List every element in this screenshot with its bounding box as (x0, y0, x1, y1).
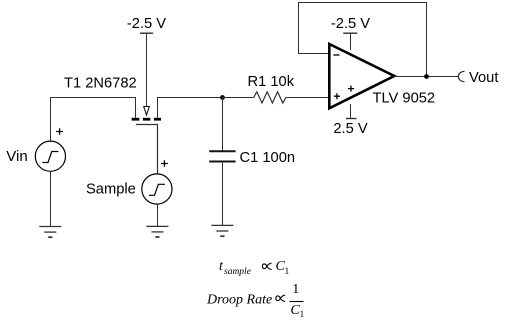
wire: C1 to ground (222, 162, 224, 226)
source Vin plus sign (56, 128, 63, 135)
transistor T1 source bar (132, 118, 140, 121)
source V2 plus sign (161, 160, 168, 167)
transistor T1 body arrow (144, 107, 150, 116)
svg-text:1: 1 (285, 267, 290, 277)
svg-text:Sample: Sample (86, 182, 136, 198)
wire: feedback top horizontal (298, 2, 427, 4)
wire: op-amp output (394, 76, 458, 78)
svg-text:2.5 V: 2.5 V (333, 121, 367, 137)
svg-text:R1 10k: R1 10k (248, 74, 295, 90)
capacitor C1 bottom plate (209, 161, 235, 163)
wire: feedback right vertical (426, 2, 428, 77)
op-amp U1 inverting input minus (333, 54, 339, 56)
svg-text:1: 1 (300, 310, 305, 320)
ground (C1) (211, 225, 233, 236)
wire: gate bias vertical (146, 34, 148, 107)
ground (Sample) (146, 226, 168, 237)
wire: Vin to ground (50, 171, 52, 226)
source V2 circle (142, 174, 172, 204)
wire: R1 to op-amp non-inverting input (286, 97, 330, 99)
wire: feedback to inverting input (298, 53, 330, 55)
wire: feedback left vertical (298, 2, 300, 54)
svg-text:-2.5 V: -2.5 V (331, 16, 370, 32)
supply V1 rail bar (140, 32, 153, 34)
wire: node A to R1 (223, 97, 254, 99)
source V2 waveform icon (149, 184, 165, 195)
transistor T1 drain bar (154, 118, 161, 121)
transistor T1 body bar (143, 118, 151, 121)
supply V3 rail bar (343, 32, 357, 34)
op-amp U1 triangle (329, 44, 394, 108)
wire: op-amp V- pin (350, 34, 352, 51)
svg-text:C1 100n: C1 100n (240, 150, 296, 166)
op-amp U1 non-inverting input plus (334, 93, 340, 99)
formula Droop Rate proportional to 1/C1 (206, 282, 305, 320)
svg-text:sample: sample (224, 267, 251, 277)
source Vin waveform icon (42, 152, 58, 163)
node A junction dot (220, 95, 225, 100)
svg-text:Droop Rate: Droop Rate (206, 293, 272, 308)
ground (Vin) (39, 227, 61, 238)
wire: Sample to ground (157, 204, 159, 226)
svg-text:1: 1 (292, 282, 299, 297)
capacitor C1 top plate (209, 150, 235, 152)
resistor R1 zigzag (254, 92, 286, 103)
svg-text:Vin: Vin (6, 148, 27, 165)
wire: Vin up and over to T1 source (51, 98, 136, 142)
svg-text:T1 2N6782: T1 2N6782 (64, 76, 137, 92)
wire: op-amp V+ pin (350, 104, 352, 119)
svg-text:TLV 9052: TLV 9052 (373, 91, 436, 107)
op-amp U1 positive supply plus (348, 86, 354, 92)
port Vout connector arc (458, 71, 464, 81)
node B output junction dot (424, 74, 429, 79)
source Vin circle (35, 141, 65, 171)
wire: node A to C1 top plate (222, 98, 224, 152)
svg-text:-2.5 V: -2.5 V (127, 16, 166, 32)
supply V4 rail bar (346, 118, 357, 120)
formula t_sample proportional to C1 (219, 259, 290, 277)
svg-text:Vout: Vout (469, 70, 498, 86)
transistor T1 gate plate and wire to Sample (136, 125, 158, 175)
wire: T1 drain up and right to node A (158, 98, 223, 118)
